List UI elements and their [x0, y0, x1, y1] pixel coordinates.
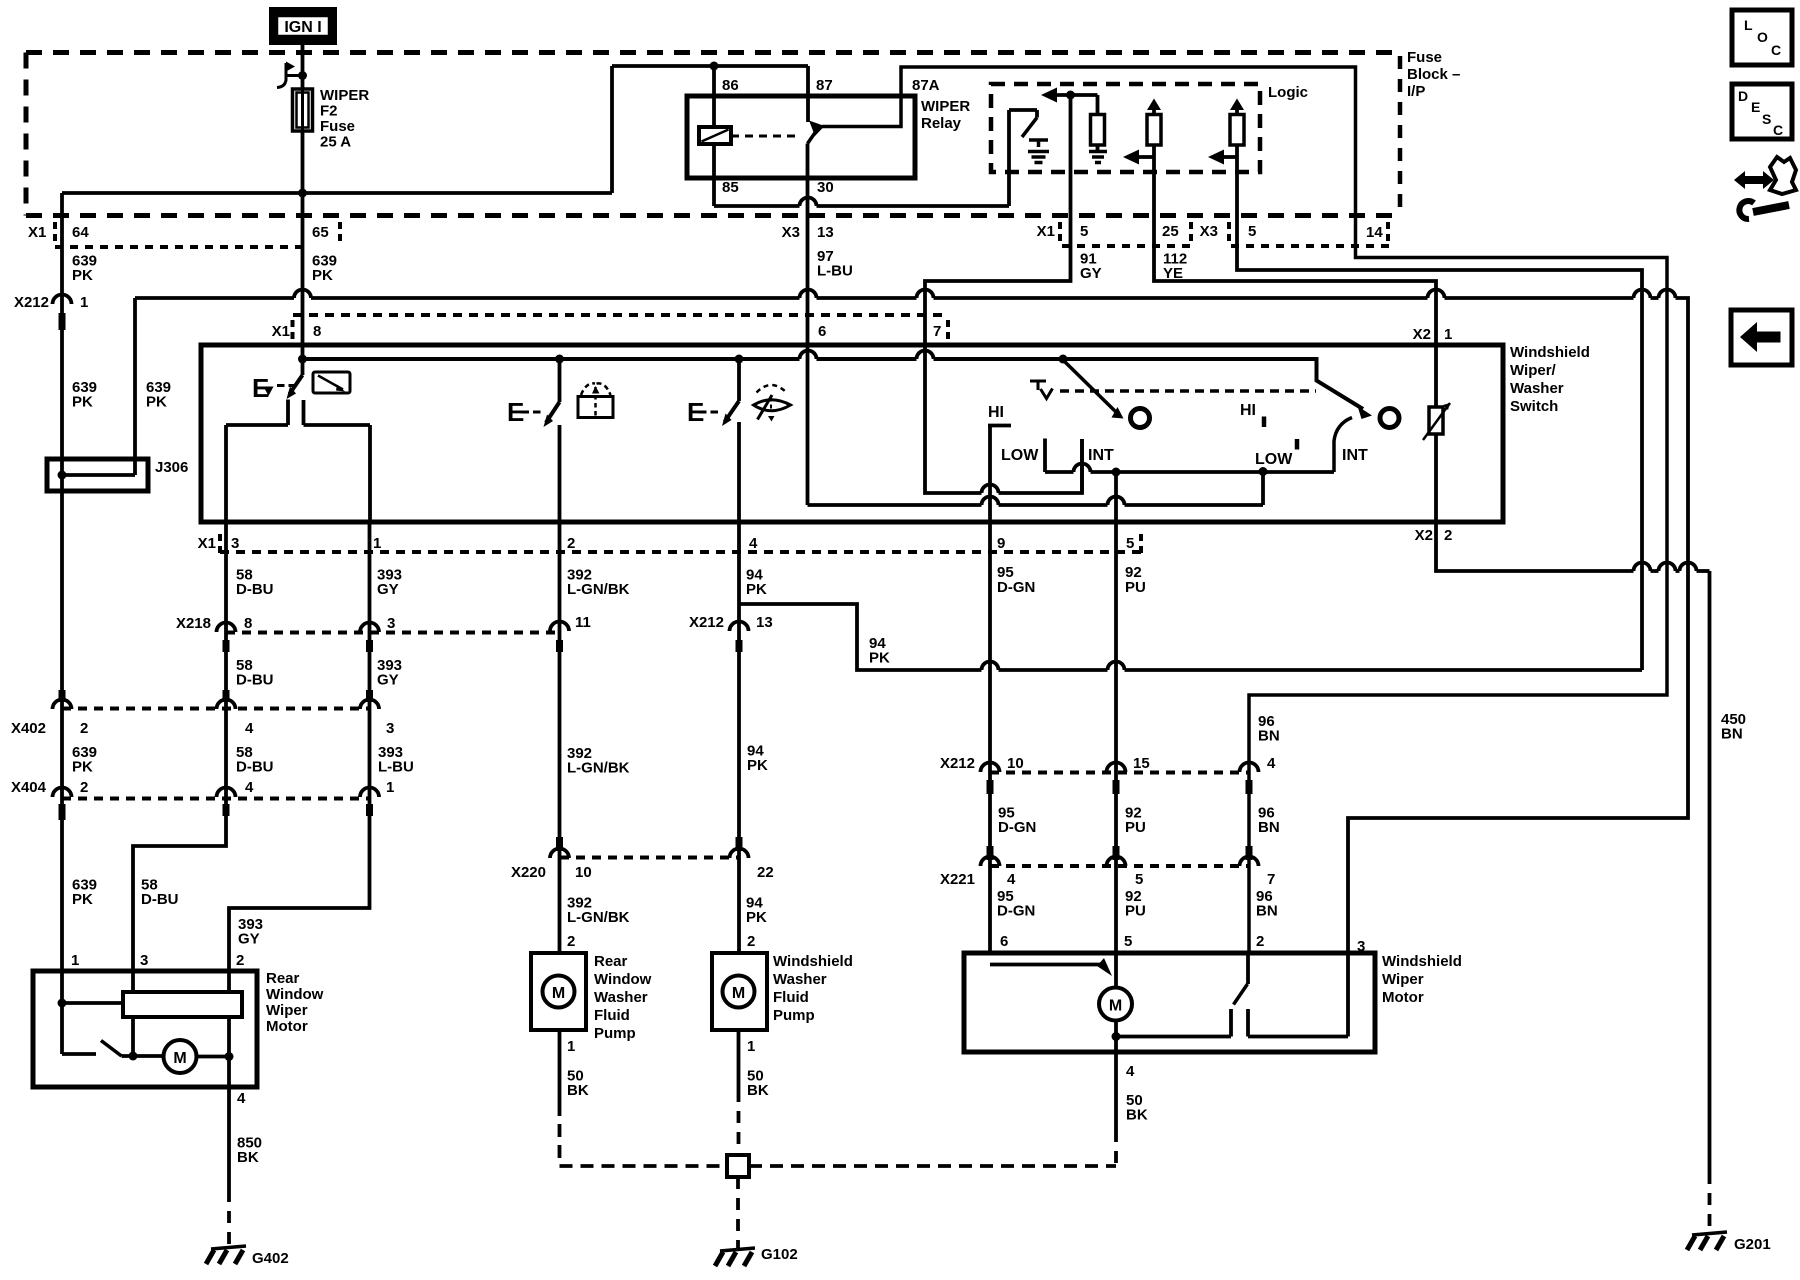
- svg-text:BN: BN: [1256, 903, 1278, 920]
- svg-text:GY: GY: [377, 581, 399, 598]
- svg-text:PU: PU: [1125, 579, 1146, 596]
- svg-text:X3: X3: [1200, 223, 1218, 240]
- svg-text:13: 13: [756, 614, 773, 631]
- svg-text:4: 4: [1007, 871, 1016, 888]
- svg-text:Windshield: Windshield: [1510, 344, 1590, 361]
- svg-text:2: 2: [1444, 527, 1452, 544]
- svg-text:4: 4: [1126, 1063, 1135, 1080]
- svg-text:Washer: Washer: [594, 989, 648, 1006]
- svg-text:Washer: Washer: [1510, 380, 1564, 397]
- svg-text:BN: BN: [1721, 726, 1743, 743]
- svg-text:YE: YE: [1163, 265, 1183, 282]
- svg-text:1: 1: [747, 1038, 755, 1055]
- svg-text:BN: BN: [1258, 728, 1280, 745]
- svg-text:IGN I: IGN I: [284, 19, 321, 36]
- svg-text:J306: J306: [155, 459, 188, 476]
- svg-text:87: 87: [816, 77, 833, 94]
- svg-text:L: L: [1744, 17, 1753, 33]
- svg-text:14: 14: [1366, 224, 1383, 241]
- svg-text:2: 2: [747, 933, 755, 950]
- svg-text:BN: BN: [1258, 819, 1280, 836]
- svg-text:PK: PK: [747, 757, 768, 774]
- svg-text:M: M: [173, 1050, 186, 1067]
- svg-text:BK: BK: [237, 1149, 259, 1166]
- svg-text:HI: HI: [988, 404, 1004, 421]
- svg-text:G402: G402: [252, 1250, 289, 1267]
- svg-text:GY: GY: [377, 672, 399, 689]
- svg-text:10: 10: [575, 864, 592, 881]
- svg-text:22: 22: [757, 864, 774, 881]
- svg-text:5: 5: [1126, 535, 1134, 552]
- svg-text:Pump: Pump: [773, 1007, 815, 1024]
- svg-text:3: 3: [140, 952, 148, 969]
- svg-text:L-GN/BK: L-GN/BK: [567, 581, 630, 598]
- svg-text:4: 4: [237, 1090, 246, 1107]
- svg-text:X2: X2: [1415, 527, 1433, 544]
- svg-text:S: S: [1762, 111, 1771, 127]
- svg-text:1: 1: [386, 779, 394, 796]
- svg-text:HI: HI: [1240, 402, 1256, 419]
- svg-text:F2: F2: [320, 103, 338, 120]
- svg-text:Motor: Motor: [1382, 989, 1424, 1006]
- svg-text:15: 15: [1133, 755, 1150, 772]
- svg-text:1: 1: [80, 294, 88, 311]
- svg-text:LOW: LOW: [1001, 447, 1039, 464]
- svg-text:X212: X212: [689, 614, 724, 631]
- svg-text:D-GN: D-GN: [997, 579, 1035, 596]
- svg-text:Windshield: Windshield: [1382, 953, 1462, 970]
- svg-text:PU: PU: [1125, 819, 1146, 836]
- svg-text:L-BU: L-BU: [817, 263, 853, 280]
- svg-text:1: 1: [373, 535, 381, 552]
- svg-text:Rear: Rear: [594, 953, 628, 970]
- svg-text:WIPER: WIPER: [320, 87, 369, 104]
- svg-text:Washer: Washer: [773, 971, 827, 988]
- svg-text:X402: X402: [11, 720, 46, 737]
- svg-text:X2: X2: [1413, 326, 1431, 343]
- svg-text:3: 3: [1357, 938, 1365, 955]
- svg-text:D-BU: D-BU: [236, 672, 274, 689]
- svg-text:GY: GY: [1080, 265, 1102, 282]
- svg-text:86: 86: [722, 77, 739, 94]
- svg-text:C: C: [1773, 122, 1783, 138]
- svg-text:10: 10: [1007, 755, 1024, 772]
- svg-text:X221: X221: [940, 871, 975, 888]
- svg-text:M: M: [552, 985, 565, 1002]
- svg-text:PK: PK: [72, 267, 93, 284]
- svg-text:G102: G102: [761, 1246, 798, 1263]
- svg-text:Window: Window: [266, 986, 324, 1003]
- svg-text:G201: G201: [1734, 1236, 1771, 1253]
- svg-text:D-GN: D-GN: [997, 903, 1035, 920]
- svg-text:Logic: Logic: [1268, 84, 1308, 101]
- svg-text:Wiper: Wiper: [266, 1002, 308, 1019]
- svg-text:4: 4: [749, 535, 758, 552]
- svg-text:7: 7: [933, 323, 941, 340]
- svg-text:WIPER: WIPER: [921, 98, 970, 115]
- svg-text:30: 30: [817, 179, 834, 196]
- svg-text:8: 8: [244, 615, 252, 632]
- svg-text:2: 2: [236, 952, 244, 969]
- svg-text:Window: Window: [594, 971, 652, 988]
- svg-text:1: 1: [567, 1038, 575, 1055]
- svg-text:5: 5: [1124, 933, 1132, 950]
- svg-text:1: 1: [71, 952, 79, 969]
- svg-text:11: 11: [575, 614, 591, 631]
- svg-text:4: 4: [245, 720, 254, 737]
- svg-text:PK: PK: [72, 394, 93, 411]
- svg-text:5: 5: [1080, 223, 1088, 240]
- svg-text:Block –: Block –: [1407, 66, 1460, 83]
- svg-text:4: 4: [245, 779, 254, 796]
- svg-text:Rear: Rear: [266, 970, 300, 987]
- svg-text:X218: X218: [176, 615, 211, 632]
- svg-text:25 A: 25 A: [320, 134, 351, 151]
- svg-text:Switch: Switch: [1510, 398, 1558, 415]
- svg-text:D: D: [1738, 88, 1748, 104]
- svg-text:8: 8: [313, 323, 321, 340]
- svg-text:X1: X1: [28, 224, 46, 241]
- svg-text:M: M: [1109, 998, 1122, 1015]
- svg-text:85: 85: [722, 179, 739, 196]
- svg-text:64: 64: [72, 224, 89, 241]
- svg-text:6: 6: [818, 323, 826, 340]
- svg-text:2: 2: [567, 535, 575, 552]
- svg-text:I/P: I/P: [1407, 83, 1425, 100]
- svg-text:Fluid: Fluid: [594, 1007, 630, 1024]
- svg-text:2: 2: [80, 779, 88, 796]
- svg-text:6: 6: [1000, 933, 1008, 950]
- svg-text:D-GN: D-GN: [998, 819, 1036, 836]
- svg-text:PK: PK: [746, 909, 767, 926]
- svg-text:Fuse: Fuse: [320, 118, 355, 135]
- svg-text:PK: PK: [72, 759, 93, 776]
- svg-text:Wiper/: Wiper/: [1510, 362, 1557, 379]
- svg-text:X1: X1: [272, 323, 290, 340]
- svg-text:X404: X404: [11, 779, 47, 796]
- svg-text:PK: PK: [312, 267, 333, 284]
- svg-text:L-GN/BK: L-GN/BK: [567, 909, 630, 926]
- svg-text:PK: PK: [146, 394, 167, 411]
- svg-text:X220: X220: [511, 864, 546, 881]
- svg-text:D-BU: D-BU: [141, 891, 179, 908]
- svg-text:3: 3: [387, 615, 395, 632]
- svg-text:INT: INT: [1342, 447, 1368, 464]
- svg-text:L-GN/BK: L-GN/BK: [567, 760, 630, 777]
- svg-text:X212: X212: [14, 294, 49, 311]
- svg-text:1: 1: [1444, 326, 1452, 343]
- svg-text:Pump: Pump: [594, 1025, 636, 1042]
- svg-text:D-BU: D-BU: [236, 759, 274, 776]
- svg-text:5: 5: [1248, 223, 1256, 240]
- svg-text:GY: GY: [238, 931, 260, 948]
- svg-text:Relay: Relay: [921, 115, 962, 132]
- svg-text:87A: 87A: [912, 77, 940, 94]
- svg-text:3: 3: [231, 535, 239, 552]
- svg-text:L-BU: L-BU: [378, 759, 414, 776]
- svg-text:Motor: Motor: [266, 1018, 308, 1035]
- svg-text:PK: PK: [869, 650, 890, 667]
- svg-text:PK: PK: [72, 891, 93, 908]
- svg-text:9: 9: [997, 535, 1005, 552]
- svg-text:Fluid: Fluid: [773, 989, 809, 1006]
- svg-text:PU: PU: [1125, 903, 1146, 920]
- svg-text:M: M: [732, 985, 745, 1002]
- svg-text:X3: X3: [782, 224, 800, 241]
- svg-text:X212: X212: [940, 755, 975, 772]
- svg-text:E: E: [1751, 99, 1760, 115]
- svg-text:3: 3: [386, 720, 394, 737]
- svg-text:Fuse: Fuse: [1407, 49, 1442, 66]
- svg-text:C: C: [1771, 42, 1781, 58]
- svg-text:65: 65: [312, 224, 329, 241]
- svg-text:13: 13: [817, 224, 834, 241]
- svg-text:BK: BK: [567, 1082, 589, 1099]
- svg-text:4: 4: [1267, 755, 1276, 772]
- svg-text:PK: PK: [746, 581, 767, 598]
- svg-text:D-BU: D-BU: [236, 581, 274, 598]
- svg-text:Wiper: Wiper: [1382, 971, 1424, 988]
- svg-text:5: 5: [1135, 871, 1143, 888]
- svg-text:7: 7: [1267, 871, 1275, 888]
- svg-text:25: 25: [1162, 223, 1179, 240]
- svg-text:LOW: LOW: [1255, 451, 1293, 468]
- svg-text:2: 2: [567, 933, 575, 950]
- svg-text:BK: BK: [1126, 1107, 1148, 1124]
- svg-text:INT: INT: [1088, 447, 1114, 464]
- svg-text:O: O: [1757, 29, 1768, 45]
- svg-text:X1: X1: [198, 535, 216, 552]
- svg-text:2: 2: [1256, 933, 1264, 950]
- svg-text:X1: X1: [1037, 223, 1055, 240]
- svg-text:BK: BK: [747, 1082, 769, 1099]
- svg-text:Windshield: Windshield: [773, 953, 853, 970]
- svg-text:2: 2: [80, 720, 88, 737]
